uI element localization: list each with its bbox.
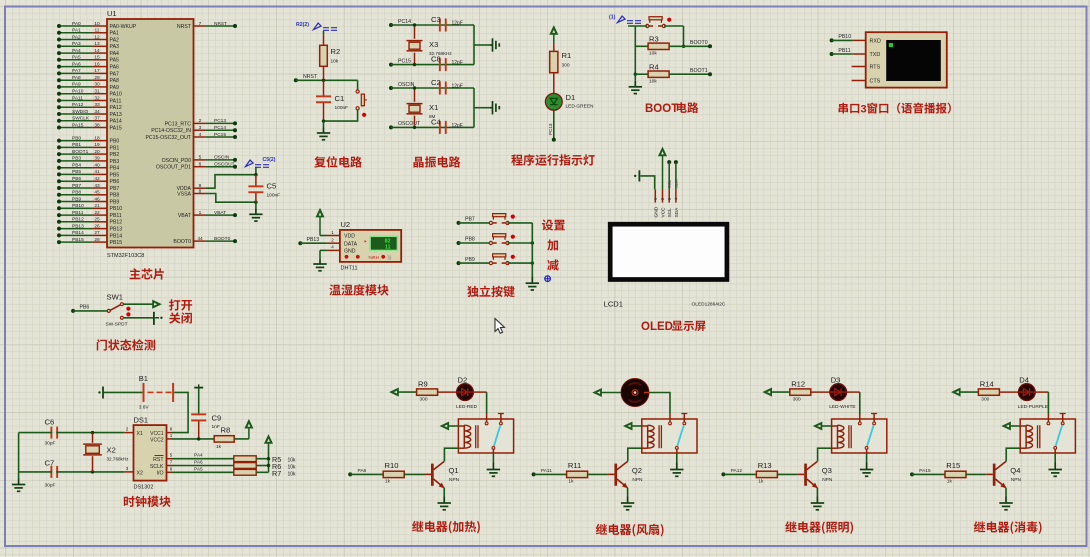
svg-text:30pF: 30pF <box>45 441 56 447</box>
wire BOOT button right down to BOOT0 <box>664 26 685 48</box>
U1 left pin PA8 (PA8 pin 29) with wire <box>57 75 119 84</box>
ground X1 rail <box>490 101 499 114</box>
svg-text:PB8: PB8 <box>465 237 475 243</box>
svg-text:14: 14 <box>94 48 100 54</box>
svg-text:32: 32 <box>94 95 100 101</box>
svg-text:PA8: PA8 <box>358 468 367 474</box>
svg-text:PB11: PB11 <box>72 210 84 216</box>
svg-text:PB15: PB15 <box>72 237 84 243</box>
svg-text:LED-PURPLE: LED-PURPLE <box>1018 404 1048 410</box>
svg-text:PB11: PB11 <box>110 213 122 219</box>
ground clock module <box>12 479 25 492</box>
ground relay switch fan <box>670 463 683 477</box>
svg-text:1k: 1k <box>385 479 391 485</box>
wire VSSA to C5 bottom <box>205 194 256 203</box>
wire D2 to relay switch <box>473 392 486 414</box>
U1 left pin PA14 (SWCLK pin 37) with wire <box>57 116 122 125</box>
resistor R2 <box>320 35 341 81</box>
svg-text:C5(2): C5(2) <box>263 157 276 163</box>
wire button to C1 bottom <box>322 110 358 123</box>
svg-text:34: 34 <box>94 109 100 115</box>
wire resistor pack to pull-up rail <box>256 443 270 472</box>
transistor Q2 NPN <box>608 461 643 488</box>
wire key PB7 to rail <box>508 222 533 224</box>
wire PB9 to key 3 <box>457 257 491 265</box>
capacitor C5 <box>248 175 280 203</box>
power arrow fan coil <box>624 422 642 429</box>
svg-text:PB0: PB0 <box>110 139 120 145</box>
svg-text:1k: 1k <box>947 479 953 485</box>
svg-text:X1: X1 <box>137 431 143 437</box>
svg-text:30: 30 <box>94 82 100 88</box>
svg-text:PA2: PA2 <box>72 34 81 40</box>
svg-text:SCLK: SCLK <box>150 464 164 470</box>
svg-text:C9: C9 <box>212 414 222 423</box>
svg-text:LED-WHITE: LED-WHITE <box>829 404 855 410</box>
svg-text:12: 12 <box>94 34 100 40</box>
svg-text:PB0: PB0 <box>72 135 81 141</box>
push button BOOT <box>646 17 672 28</box>
svg-text:PA5: PA5 <box>110 58 120 64</box>
svg-text:6: 6 <box>170 466 173 471</box>
power arrow light supply <box>764 389 772 396</box>
wire PC14 net <box>389 19 474 27</box>
svg-text:PB10: PB10 <box>838 34 851 40</box>
svg-text:5: 5 <box>170 453 173 458</box>
svg-text:300: 300 <box>562 63 570 69</box>
U1 left pin PB2 (BOOT1 pin 20) with wire <box>57 149 119 158</box>
annotation R2(2) pencil <box>296 22 337 30</box>
wire VCC2 to R8 <box>167 437 215 440</box>
svg-text:VCC: VCC <box>661 207 667 218</box>
svg-text:PC13: PC13 <box>548 123 553 135</box>
battery B1 <box>98 374 173 411</box>
svg-text:PA3: PA3 <box>72 41 81 47</box>
capacitor C7 <box>45 459 59 489</box>
U1 left pin PB6 (PB6 pin 42) with wire <box>57 176 119 185</box>
svg-text:PB2: PB2 <box>110 152 120 158</box>
wire IO to R7 node PA5 <box>172 466 234 472</box>
svg-text:21: 21 <box>94 203 100 209</box>
resistor R10 <box>383 461 404 485</box>
power arrow heater coil <box>441 422 459 429</box>
svg-text:GND: GND <box>653 206 659 217</box>
wire R11 to Q2 <box>588 473 608 475</box>
svg-text:39: 39 <box>94 156 100 162</box>
svg-text:X2: X2 <box>107 446 116 455</box>
svg-text:8: 8 <box>170 427 173 432</box>
display LCD1 OLED12864I2C <box>604 224 727 308</box>
svg-text:PA15: PA15 <box>110 125 122 131</box>
transistor Q4 NPN <box>986 461 1021 488</box>
wire R14 to D4 <box>999 391 1018 393</box>
U1 left pin PB1 (PB1 pin 19) with wire <box>57 142 119 151</box>
svg-text:PA10: PA10 <box>110 92 122 98</box>
svg-text:11: 11 <box>95 28 100 34</box>
transistor Q1 NPN <box>425 461 460 488</box>
ground Q3 emitter <box>811 497 824 510</box>
svg-text:10k: 10k <box>288 458 297 464</box>
svg-text:LED-GREEN: LED-GREEN <box>566 104 595 110</box>
svg-text:300: 300 <box>420 397 428 403</box>
ground keys <box>526 276 539 290</box>
wire D3 to relay switch <box>847 392 860 414</box>
ground reset circuit <box>317 121 330 140</box>
resistor R9 <box>417 379 438 402</box>
power arrow OLED <box>659 148 666 189</box>
svg-text:NPN: NPN <box>449 477 460 483</box>
wire PB13 to DATA pin <box>298 237 340 245</box>
U1 left pin PB13 (PB13 pin 26) with wire <box>57 223 122 232</box>
crystal X1 <box>407 86 439 129</box>
wire coil to Q3 collector <box>818 448 832 461</box>
serial terminal box body <box>866 32 947 87</box>
wire relay switch to ground <box>676 453 678 463</box>
svg-text:C3: C3 <box>431 15 441 24</box>
mouse cursor <box>495 319 505 334</box>
svg-text:33: 33 <box>94 102 100 108</box>
svg-text:C1: C1 <box>335 94 345 103</box>
wire PA to R base <box>910 468 945 476</box>
op-amp U1 body (STM32F103C8 MCU) <box>107 9 194 259</box>
ground DHT11 <box>313 260 326 271</box>
U1 left pin PA3 (PA3 pin 13) with wire <box>57 41 119 50</box>
svg-text:PA0: PA0 <box>72 21 81 27</box>
svg-text:PC14: PC14 <box>214 125 226 131</box>
svg-text:PB4: PB4 <box>110 166 120 172</box>
resistor R6 <box>234 463 256 469</box>
wire R12 to D3 <box>811 391 830 393</box>
resistor R8 <box>214 426 234 451</box>
wire D1 to PC13 terminal <box>548 110 556 141</box>
wire relay switch to ground <box>492 453 494 463</box>
push button reset <box>356 90 367 117</box>
svg-text:PB8: PB8 <box>72 190 81 196</box>
ground relay switch steril <box>1049 463 1062 477</box>
chip DS1 DS1302 body <box>126 416 173 491</box>
svg-text:PB7: PB7 <box>465 217 475 223</box>
svg-text:22: 22 <box>94 210 100 216</box>
svg-text:10k: 10k <box>288 465 297 471</box>
pin stub X2 <box>124 471 133 473</box>
svg-text:9: 9 <box>199 183 202 189</box>
svg-text:PB9: PB9 <box>465 257 475 263</box>
svg-text:DATA: DATA <box>344 241 358 247</box>
svg-text:8: 8 <box>199 188 202 194</box>
terminal SDA <box>674 160 678 189</box>
svg-text:R14: R14 <box>980 379 994 388</box>
crystal X3 <box>407 23 453 66</box>
U1 right pin PC14-OSC32_IN (pin 3) node PC14 <box>151 125 237 134</box>
svg-text:PA7: PA7 <box>72 68 81 74</box>
wire R15 to Q4 <box>966 473 986 475</box>
U1 right pin NRST (pin 7) with wire and node NRST <box>177 21 237 30</box>
capacitor C2 <box>431 78 463 95</box>
svg-text:PB8: PB8 <box>110 193 120 199</box>
label main chip <box>130 268 164 279</box>
svg-text:31: 31 <box>94 89 100 95</box>
wire SW1 top to power arrow <box>123 301 160 308</box>
svg-text:PA11: PA11 <box>541 468 552 474</box>
svg-text:PA9: PA9 <box>72 82 81 88</box>
svg-text:PB4: PB4 <box>72 163 81 169</box>
power arrow resistor pack <box>265 436 272 444</box>
svg-text:40: 40 <box>94 163 100 169</box>
resistor R3 <box>648 35 669 57</box>
svg-text:PB3: PB3 <box>110 159 120 165</box>
svg-text:46: 46 <box>94 196 100 202</box>
U1 left pin PA9 (PA9 pin 30) with wire <box>57 82 119 91</box>
svg-text:RXD: RXD <box>870 39 881 45</box>
svg-text:DS1: DS1 <box>134 416 149 425</box>
label key set <box>542 219 565 230</box>
svg-text:R13: R13 <box>758 461 772 470</box>
diode D4 LED-PURPLE <box>1018 375 1048 410</box>
U1 left pin PB7 (PB7 pin 43) with wire <box>57 183 119 192</box>
annotation (1) pencil <box>609 15 641 24</box>
resistor R4 <box>648 62 669 84</box>
label temperature humidity module <box>329 284 388 295</box>
U1 left pin PB8 (PB8 pin 45) with wire <box>57 190 119 199</box>
power arrow R8 <box>245 420 252 428</box>
svg-text:C2: C2 <box>431 78 441 87</box>
wire keys ground rail <box>531 223 533 276</box>
svg-text:4: 4 <box>199 132 202 138</box>
capacitor C6 <box>45 418 59 447</box>
svg-text:PB6: PB6 <box>72 176 81 182</box>
U1 left pin PA13 (SWDIO pin 34) with wire <box>57 109 122 118</box>
svg-text:OSCOUT: OSCOUT <box>214 162 235 168</box>
svg-text:DHT11: DHT11 <box>341 266 358 272</box>
wire R10 to Q1 <box>404 473 424 475</box>
svg-text:2: 2 <box>126 427 129 432</box>
svg-text:I/O: I/O <box>157 471 164 477</box>
U1 left pin PB0 (PB0 pin 18) with wire <box>57 135 119 144</box>
wire X2 row <box>19 470 125 473</box>
svg-text:2: 2 <box>199 118 202 124</box>
svg-text:SWCLK: SWCLK <box>72 116 90 122</box>
diode D1 LED-GREEN <box>545 93 594 110</box>
svg-text:NRST: NRST <box>303 74 318 80</box>
U1 left pin PB14 (PB14 pin 27) with wire <box>57 230 122 239</box>
svg-text:PA10: PA10 <box>72 89 84 95</box>
svg-text:D4: D4 <box>1019 375 1029 384</box>
transistor Q3 NPN <box>798 461 833 488</box>
svg-text:1nF: 1nF <box>212 424 220 430</box>
wire relay switch to ground <box>866 453 868 463</box>
wire VDDA to C5 top <box>205 175 256 189</box>
svg-text:LCD1: LCD1 <box>604 300 623 309</box>
U1 left pin PB9 (PB9 pin 46) with wire <box>57 196 119 205</box>
svg-text:PB1: PB1 <box>110 145 120 151</box>
net labels rotated on OLED wires <box>667 179 679 188</box>
svg-text:10: 10 <box>94 21 100 27</box>
pin stub X1 <box>124 432 133 434</box>
wire PC15 net <box>389 58 474 66</box>
ground relay switch light <box>860 463 873 477</box>
U1 left pin PA1 (PA1 pin 11) with wire <box>57 28 119 37</box>
svg-text:10k: 10k <box>649 78 657 84</box>
svg-text:PA12: PA12 <box>110 105 122 111</box>
svg-text:PA11: PA11 <box>72 95 83 101</box>
svg-text:PA7: PA7 <box>110 71 120 77</box>
U1 right pin BOOT0 (pin 44) node BOOT0 <box>173 236 237 245</box>
wire PB6 to SW1 <box>71 305 107 313</box>
svg-text:SWDIO: SWDIO <box>72 109 89 115</box>
svg-text:DS1302: DS1302 <box>134 485 154 491</box>
svg-text:BOOT1: BOOT1 <box>72 149 89 155</box>
svg-text:5: 5 <box>199 155 202 161</box>
svg-text:R15: R15 <box>946 461 960 470</box>
svg-text:29: 29 <box>94 75 100 81</box>
wire arrow to R14 <box>960 391 978 393</box>
svg-text:PC15: PC15 <box>214 132 226 138</box>
svg-text:PA1: PA1 <box>110 31 120 37</box>
svg-text:PA12: PA12 <box>731 468 743 474</box>
pin stub CTS <box>852 80 866 82</box>
resistor R5 <box>234 456 256 462</box>
svg-text:PA14: PA14 <box>110 119 122 125</box>
wire PB10 to RXD <box>830 34 866 42</box>
origin marker <box>544 275 551 282</box>
svg-text:3.6V: 3.6V <box>139 405 150 411</box>
svg-text:PB7: PB7 <box>72 183 81 189</box>
svg-text:OLED: OLED <box>641 321 673 333</box>
svg-text:PA2: PA2 <box>110 37 120 43</box>
svg-text:C7: C7 <box>45 459 55 468</box>
svg-text:Q2: Q2 <box>632 466 642 475</box>
svg-text:27: 27 <box>94 230 100 236</box>
svg-text:PA5: PA5 <box>72 55 81 61</box>
U1 left pin PB12 (PB12 pin 25) with wire <box>57 217 122 226</box>
svg-text:12pF: 12pF <box>452 21 463 27</box>
svg-text:15: 15 <box>94 55 100 61</box>
ground Q2 emitter <box>621 497 634 510</box>
svg-text:R2: R2 <box>331 47 341 56</box>
U1 left pin PB5 (PB5 pin 41) with wire <box>57 169 119 178</box>
diode D2 LED-RED <box>456 375 478 410</box>
crystal X2 <box>83 433 129 472</box>
label relay fan <box>596 524 664 537</box>
svg-text:VSSA: VSSA <box>177 191 191 197</box>
U1 right pin VBAT (pin 1) node VBAT <box>178 210 237 219</box>
svg-text:PC15: PC15 <box>398 58 411 64</box>
svg-text:PB6: PB6 <box>80 305 90 311</box>
wire motor to relay switch <box>644 393 670 415</box>
ground Q1 emitter <box>438 497 451 510</box>
wire key PB8 to rail <box>508 241 535 244</box>
wire GND pin to ground <box>320 250 340 259</box>
svg-text:Q1: Q1 <box>449 466 459 475</box>
svg-text:PA12: PA12 <box>72 102 84 108</box>
svg-text:10k: 10k <box>649 51 657 57</box>
wire R9 to D2 <box>438 391 457 393</box>
svg-text:PB14: PB14 <box>72 230 84 236</box>
wire R8 to power arrow <box>234 428 249 439</box>
ground X3 rail <box>490 38 499 51</box>
svg-text:R3: R3 <box>649 35 659 44</box>
svg-text:PA0-WKUP: PA0-WKUP <box>110 24 137 30</box>
svg-text:1k: 1k <box>758 479 764 485</box>
pin stub RST <box>167 458 173 460</box>
svg-text:PA6: PA6 <box>194 460 203 466</box>
svg-text:X1: X1 <box>429 103 438 112</box>
wire PA to R base <box>532 468 567 476</box>
label R5 R6 R7 <box>272 455 296 478</box>
power arrow DHT11 <box>316 209 323 235</box>
wire relay switch to ground <box>1054 453 1056 463</box>
svg-text:1k: 1k <box>568 479 574 485</box>
U1 left pin PB15 (PB15 pin 28) with wire <box>57 237 122 246</box>
svg-text:12pF: 12pF <box>452 60 463 66</box>
svg-text:OSCIN_PD0: OSCIN_PD0 <box>162 158 192 164</box>
svg-text:PC15-OSC32_OUT: PC15-OSC32_OUT <box>145 135 191 141</box>
svg-text:10k: 10k <box>288 471 297 477</box>
svg-text:PB13: PB13 <box>72 223 84 229</box>
svg-text:VCC2: VCC2 <box>150 437 164 443</box>
power bar symbol door <box>154 312 163 325</box>
svg-text:C6: C6 <box>45 418 55 427</box>
power arrow fan supply <box>594 389 602 396</box>
wire R3 to BOOT0 terminal <box>669 40 712 48</box>
svg-text:32.768kHz: 32.768kHz <box>107 457 130 462</box>
svg-text:TXD: TXD <box>870 52 881 58</box>
svg-text:OLED12864I2C: OLED12864I2C <box>692 302 726 308</box>
wire PB8 to key 2 <box>457 237 491 245</box>
svg-text:PB7: PB7 <box>110 186 120 192</box>
svg-text:R10: R10 <box>385 461 399 470</box>
diode D3 LED-WHITE <box>829 375 855 410</box>
svg-text:VCC1: VCC1 <box>150 431 164 437</box>
OLED pin stubs <box>653 189 679 202</box>
svg-text:NPN: NPN <box>1011 477 1022 483</box>
power arrow steril supply <box>952 389 960 396</box>
svg-text:X3: X3 <box>429 40 438 49</box>
power arrow heater supply <box>391 389 399 396</box>
U1 right pin VSSA (pin 8) <box>177 188 205 197</box>
svg-text:1k: 1k <box>216 444 222 450</box>
svg-text:3: 3 <box>126 466 129 471</box>
ground below C5 <box>249 202 262 221</box>
svg-text:NRST: NRST <box>177 24 192 30</box>
wire coil to Q2 collector <box>628 448 642 461</box>
wire X1 row <box>19 431 125 434</box>
resistor R14 <box>978 379 999 402</box>
svg-text:PB12: PB12 <box>72 217 84 223</box>
svg-text:R11: R11 <box>568 461 581 470</box>
svg-text:PC14-OSC32_IN: PC14-OSC32_IN <box>151 128 191 134</box>
svg-text:1: 1 <box>170 433 173 438</box>
push button key PB7 <box>489 214 515 225</box>
svg-text:B1: B1 <box>139 374 148 383</box>
wire Q2 emitter to ground <box>627 488 629 497</box>
svg-text:R2(2): R2(2) <box>296 22 309 28</box>
svg-text:VBAT: VBAT <box>178 213 192 219</box>
svg-text:R8: R8 <box>221 426 231 435</box>
svg-text:PA11: PA11 <box>110 98 122 104</box>
svg-text:SDA: SDA <box>674 179 679 188</box>
svg-text:R12: R12 <box>791 379 805 388</box>
wire BOOT button left to R3/R4 rail <box>628 26 647 76</box>
pin stub IO <box>167 471 173 473</box>
svg-text:19: 19 <box>94 142 100 148</box>
svg-text:PB1: PB1 <box>72 142 81 148</box>
svg-text:30pF: 30pF <box>45 483 56 489</box>
svg-text:SW-SPDT: SW-SPDT <box>106 321 128 327</box>
label serial window <box>839 103 951 116</box>
wire arrow to R9 <box>398 391 416 393</box>
U1 left pin PA2 (PA2 pin 12) with wire <box>57 34 119 43</box>
